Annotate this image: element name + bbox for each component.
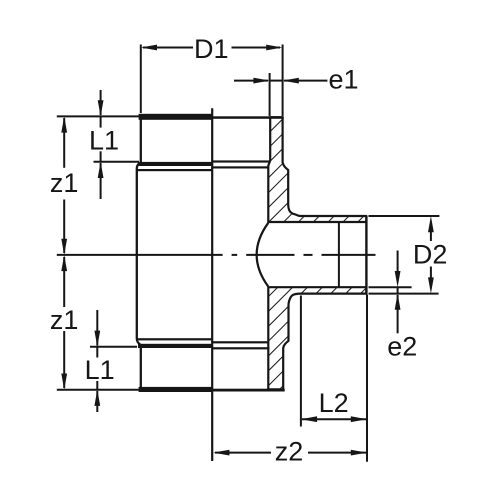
- D2 bottom arrow (pointing down): [428, 277, 434, 293]
- z1 top lower arrow (pointing down): [61, 239, 67, 255]
- branch end face line: [365, 216, 367, 294]
- svg-text:e1: e1: [329, 64, 359, 94]
- bore intersection arc: [257, 223, 269, 287]
- z1 top dimension vertical: [63, 118, 65, 168]
- tee body section lower-right wall (hatched): [268, 287, 366, 389]
- L1 bottom dimension verticals: [96, 310, 98, 346]
- z1 bottom dimension vertical: [63, 257, 65, 307]
- z1 top upper arrow (pointing up): [61, 116, 67, 132]
- top end face (right section line): [213, 116, 284, 119]
- svg-text:e2: e2: [387, 332, 417, 362]
- z1 bottom lower arrow (pointing down): [61, 374, 67, 390]
- top socket bead lines (left exterior): [138, 162, 213, 166]
- vertical axis / half-section divide line: [211, 108, 213, 461]
- D1 left arrow: [141, 45, 157, 51]
- e1 extension line: [269, 73, 271, 116]
- svg-text:L1: L1: [89, 125, 119, 155]
- L2 right arrow (pointing right): [351, 416, 367, 422]
- svg-text:z2: z2: [275, 436, 304, 466]
- e2 top arrow (pointing down, outside): [395, 271, 401, 287]
- L1 top lower arrow (pointing up): [98, 162, 104, 178]
- z1 bottom upper arrow (pointing up): [61, 255, 67, 271]
- svg-text:z1: z1: [50, 305, 79, 335]
- e1 left arrow (outside, pointing right): [253, 78, 269, 84]
- z2 left arrow (pointing left): [213, 450, 229, 456]
- D1 dimension line: [143, 47, 193, 49]
- L1 bottom lower arrow (pointing up): [94, 390, 100, 406]
- L1 top dimension verticals: [100, 90, 102, 115]
- z2 dimension line: [215, 452, 271, 454]
- svg-text:D1: D1: [194, 34, 229, 64]
- top end face (left thick band): [139, 114, 213, 120]
- bottom end face (right section line): [213, 389, 285, 392]
- bottom socket bead lines (left exterior): [137, 338, 213, 340]
- L2 dimension line: [302, 418, 366, 420]
- L2 extension lines: [300, 296, 302, 427]
- tee body section upper-right wall (hatched): [268, 117, 366, 389]
- D1 extension lines: [140, 45, 142, 114]
- horizontal branch centerline (dash-dot): [57, 254, 376, 256]
- D1 right arrow: [266, 45, 282, 51]
- D2 top arrow (pointing up): [428, 216, 434, 232]
- svg-text:L1: L1: [85, 355, 115, 385]
- svg-text:z1: z1: [50, 168, 79, 198]
- left exterior outline of body: [140, 120, 142, 163]
- top socket shoulder lines (right section): [213, 160, 271, 162]
- bottom end face (left thick band): [139, 387, 213, 392]
- bottom socket shoulder lines (right section): [213, 341, 269, 343]
- z1/L1 bottom shared extension line: [57, 389, 139, 391]
- arrowheads: [61, 45, 434, 456]
- branch socket stop line: [338, 222, 340, 287]
- e1 right arrow (outside, pointing left): [283, 78, 299, 84]
- e1 dimension line: [234, 80, 268, 82]
- e2 dimension vertical: [397, 251, 399, 273]
- e2 extension line (inner): [369, 286, 412, 288]
- L1 bottom upper arrow (pointing down): [94, 331, 100, 347]
- svg-text:D2: D2: [413, 239, 448, 269]
- z2 right arrow (pointing right): [351, 450, 367, 456]
- D2 dimension vertical: [430, 230, 432, 241]
- svg-text:L2: L2: [319, 388, 349, 418]
- L2 left arrow (pointing left): [301, 416, 317, 422]
- L1 top upper arrow (pointing down): [98, 100, 104, 116]
- L1 bottom extension line: [90, 346, 137, 348]
- L1 top extension lines: [57, 115, 140, 117]
- e2 bottom arrow (pointing up, outside): [395, 294, 401, 310]
- D2 extension lines: [369, 215, 440, 217]
